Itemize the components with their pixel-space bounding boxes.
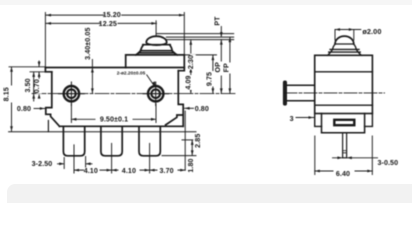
mounting hole left inner [67, 89, 76, 98]
arrow dim 0.80 right [185, 107, 190, 110]
arrows dim 15.20 [46, 14, 51, 17]
dim 3-0.50 leader [333, 157, 378, 159]
dim 3.50 line [33, 73, 35, 102]
side slot [334, 120, 354, 125]
FP reference line [166, 36, 233, 38]
svg-text:3-0.50: 3-0.50 [377, 159, 398, 167]
dim 2.85 line [191, 141, 193, 156]
svg-text:2-ø2.20±0.05: 2-ø2.20±0.05 [117, 70, 146, 76]
side plunger dome base line [335, 43, 354, 45]
mounting hole right inner [151, 89, 160, 98]
plunger skirt front [136, 51, 177, 55]
arrows dim FP [229, 37, 232, 42]
terminal center ext 1 [73, 145, 75, 173]
side view body [315, 55, 373, 113]
arrows dim 3.50 [32, 72, 35, 77]
terminal 3 [139, 127, 160, 156]
side bottom pin [343, 133, 347, 158]
terminal bottom ext [162, 155, 196, 157]
dim 3-2.50 right arrow [86, 157, 92, 168]
svg-text:3.40±0.05: 3.40±0.05 [84, 27, 92, 59]
dim 3-2.50 line [58, 158, 65, 169]
svg-text:4.10: 4.10 [122, 167, 136, 175]
centerline holes [32, 93, 236, 95]
texts horizontal [17, 11, 398, 178]
hole left crosshair [59, 82, 85, 106]
arrows dim 9.75 [212, 55, 215, 60]
dim 15.20 line [46, 14, 184, 16]
dim 9.50 line [71, 118, 156, 120]
free position top line [156, 33, 233, 35]
svg-text:9.50±0.1: 9.50±0.1 [100, 116, 128, 124]
arrows dim 3-2.50 [59, 162, 64, 165]
side base block [322, 114, 365, 133]
side plunger dome [335, 36, 354, 44]
dim OP line [220, 40, 222, 94]
text backplates [6, 12, 351, 177]
front view raised plate [126, 55, 185, 71]
svg-text:0.80: 0.80 [195, 105, 209, 113]
bottom gray panel [7, 184, 412, 203]
terminal 1 [63, 127, 84, 156]
arrows dim 4.10 chain [74, 169, 79, 172]
side wing right [365, 114, 373, 127]
dim 0.70 line [38, 61, 40, 93]
leader arrow hole text [152, 81, 155, 87]
arrows dim 6.40 [315, 170, 320, 173]
svg-text:OP: OP [214, 62, 222, 73]
svg-text:ø2.00: ø2.00 [362, 27, 381, 36]
side plunger tier2 [330, 44, 359, 49]
svg-text:4.09: 4.09 [184, 75, 192, 89]
svg-text:2.30: 2.30 [187, 55, 195, 69]
dim 8.15 top ext [9, 66, 45, 68]
dim 12.25 ext [155, 21, 157, 36]
plunger ball front [146, 36, 166, 45]
left step ext [30, 71, 52, 73]
dim 15.20 ext right [183, 13, 185, 55]
dim 4.10 line [74, 169, 185, 171]
side centerline [284, 92, 385, 94]
side pin shaft [287, 85, 315, 101]
front view left foot edge [47, 121, 49, 132]
front view left tab [45, 68, 51, 72]
arrows dim 9.50 [71, 118, 76, 121]
svg-text:3.70: 3.70 [159, 167, 173, 175]
arrows dim 3-0.50 [337, 156, 342, 159]
side body seam upper [315, 71, 373, 73]
dim 9.75 line [212, 55, 214, 93]
arrow dim PT [220, 32, 223, 37]
side pin cap [283, 81, 286, 105]
front view right wall [166, 71, 184, 127]
side body seam lower [315, 104, 373, 106]
texts rotated [3, 16, 231, 173]
svg-text:6.40: 6.40 [336, 170, 350, 178]
dim 3 leader [296, 117, 314, 119]
plate top ext [184, 54, 216, 56]
svg-text:3: 3 [290, 115, 294, 123]
arrows dim 8.15 [10, 67, 13, 72]
arrowheads [10, 14, 372, 173]
svg-text:4.10: 4.10 [84, 167, 98, 175]
side pin band [343, 151, 347, 153]
svg-text:12.25: 12.25 [99, 20, 117, 28]
top gray band [0, 0, 412, 5]
arrows dim o2.00 [335, 28, 340, 31]
svg-text:PT: PT [214, 16, 222, 26]
mounting hole right outer [148, 86, 163, 101]
dim 2.30/4.09 line [190, 40, 192, 93]
dim 0.80 right leader [185, 107, 194, 109]
svg-text:0.80: 0.80 [17, 105, 31, 113]
svg-text:8.15: 8.15 [3, 87, 11, 101]
dim 8.15 line [11, 67, 13, 131]
arrows dim 2.30 and 4.09 [189, 40, 192, 45]
arrows dim 12.25 [46, 22, 51, 25]
arrow dim 0.80 left [40, 107, 45, 110]
side wing left [315, 114, 322, 127]
front view left wall [46, 72, 60, 127]
terminal center ext 2 [111, 143, 113, 173]
arrows dim 2.85 [191, 140, 194, 145]
dim o2.00 bracket [335, 30, 361, 41]
dim 15.20 ext left [44, 13, 46, 67]
terminal 2 [101, 127, 122, 156]
front view body top edge [45, 67, 184, 69]
terminal center ext 3 [149, 143, 151, 173]
svg-text:1.80: 1.80 [187, 158, 195, 172]
arrows dim 3.40 [91, 68, 94, 73]
dim 6.40 ext [315, 136, 373, 175]
side plunger tier3 [327, 49, 361, 55]
dim 3.40 line [91, 58, 93, 94]
front view bottom edge [60, 125, 184, 127]
dim PT line [220, 27, 222, 37]
right edge ext down [184, 111, 186, 170]
dim 9.50 ext right [155, 104, 157, 123]
aux line right [182, 139, 193, 141]
svg-text:3.50: 3.50 [24, 78, 32, 92]
mounting hole left outer [64, 86, 79, 101]
arrows dim OP [220, 40, 223, 45]
svg-text:0.70: 0.70 [33, 79, 41, 93]
dim FP line [229, 37, 231, 93]
OP reference line [166, 39, 233, 41]
seating line [9, 131, 196, 133]
hole right crosshair [143, 82, 169, 106]
svg-text:FP: FP [222, 63, 230, 72]
dim 0.80 left leader [34, 108, 45, 110]
dim 9.50 ext left [70, 104, 72, 123]
plunger tier2 front [141, 45, 173, 51]
dim 12.25 line [46, 22, 156, 24]
leader line hole text [147, 75, 155, 87]
svg-text:15.20: 15.20 [103, 11, 121, 19]
svg-text:2.85: 2.85 [194, 134, 202, 148]
arrow leader 3 [309, 116, 314, 119]
svg-text:3-2.50: 3-2.50 [32, 160, 53, 168]
dim 6.40 line [315, 170, 373, 172]
svg-text:9.75: 9.75 [206, 72, 214, 86]
arrows dim 0.70 [38, 62, 41, 67]
